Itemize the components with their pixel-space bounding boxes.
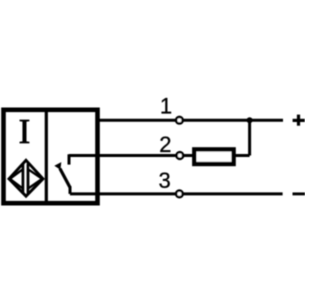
terminal circle 3 bbox=[176, 191, 183, 198]
switch actuation arrowhead bbox=[54, 162, 61, 170]
minus terminal bbox=[293, 192, 306, 195]
diamond left triangle bbox=[10, 169, 23, 188]
diamond inner right bar bbox=[27, 164, 30, 194]
divider line bbox=[45, 110, 48, 203]
svg-text:2: 2 bbox=[159, 132, 171, 157]
wire 1 bbox=[98, 119, 284, 122]
contact top terminal stub bbox=[68, 154, 71, 164]
wire 2 bbox=[69, 154, 250, 157]
diamond inner left bar bbox=[22, 164, 25, 194]
diamond right triangle bbox=[28, 169, 42, 188]
terminal circle 1 bbox=[176, 117, 183, 124]
junction node dot bbox=[247, 117, 253, 123]
wire 3 bbox=[70, 192, 283, 195]
svg-text:I: I bbox=[19, 112, 31, 151]
terminal circle 2 bbox=[177, 152, 184, 159]
svg-text:1: 1 bbox=[160, 93, 172, 118]
plus terminal bbox=[293, 119, 305, 122]
contact bottom terminal stub bbox=[69, 186, 72, 194]
wire vertical from node to resistor bbox=[248, 120, 251, 155]
resistor R bbox=[194, 149, 233, 164]
svg-text:3: 3 bbox=[158, 168, 170, 193]
inductive sensor diamond bbox=[9, 160, 43, 196]
switch lever bbox=[60, 169, 70, 188]
sensor body box bbox=[4, 110, 98, 203]
